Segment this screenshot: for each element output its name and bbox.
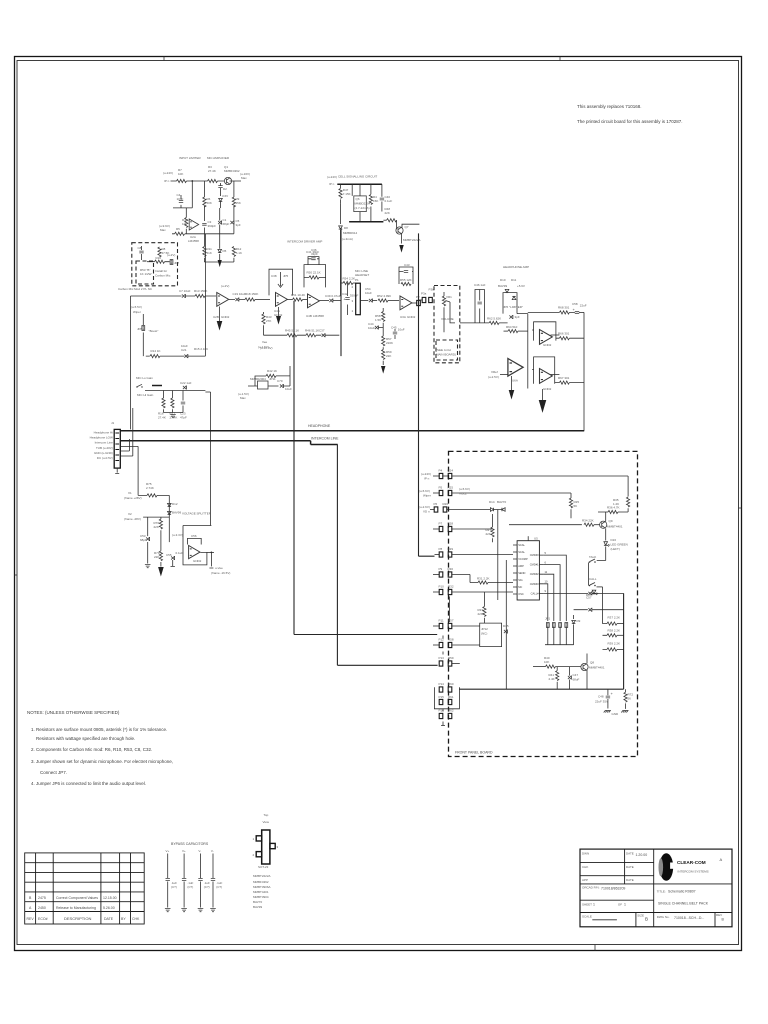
- svg-text:P7: P7: [439, 522, 443, 526]
- svg-text:(frame -16.5V): (frame -16.5V): [211, 571, 230, 575]
- capacitor C39 0.47uF: [329, 299, 333, 303]
- svg-text:C58: C58: [572, 302, 578, 306]
- resistor R9 15K: [232, 197, 235, 207]
- resistor R51 10.4K: [293, 298, 303, 301]
- svg-text:Wiper: Wiper: [423, 494, 431, 498]
- svg-text:U6A: U6A: [512, 379, 518, 383]
- transistor Q9 MMBT4401: [600, 521, 607, 528]
- pot resistor VR1: [443, 292, 445, 332]
- wire top rail: [171, 180, 242, 182]
- resistor R11 51K: [203, 247, 206, 257]
- capacitor C8: [139, 251, 143, 253]
- svg-text:JP6: JP6: [503, 305, 509, 309]
- svg-text:VR1: VR1: [446, 295, 452, 299]
- svg-text:GND2: GND2: [543, 343, 552, 347]
- cap C57 on cmd wire: [543, 592, 623, 594]
- call switch S2: [589, 583, 596, 587]
- resistor R44 to base: [383, 219, 386, 221]
- capacitor C48 22uF 35V: [607, 689, 609, 695]
- svg-text:u-Vee: u-Vee: [215, 566, 223, 570]
- J1 pin contacts: [115, 433, 119, 461]
- svg-text:7.15K: 7.15K: [343, 192, 351, 196]
- resistor R46 51.1K: [306, 334, 316, 337]
- svg-text:P8: P8: [439, 547, 443, 551]
- svg-text:(C?): (C?): [187, 885, 193, 889]
- bypass cap C61: [165, 849, 177, 912]
- resistor R62 5.62K: [489, 321, 499, 324]
- svg-text:27K: 27K: [266, 319, 271, 323]
- svg-text:5K: 5K: [574, 504, 578, 508]
- fp row2 wire: [452, 493, 571, 518]
- svg-text:MMBT3906A: MMBT3906A: [253, 885, 271, 889]
- output stage loop 2: [532, 357, 555, 384]
- svg-text:P5: P5: [439, 486, 443, 490]
- resistor R18 150K: [245, 298, 255, 301]
- svg-text:R68 301: R68 301: [558, 306, 570, 310]
- svg-text:C38: C38: [271, 274, 277, 278]
- svg-text:MMBD2204: MMBD2204: [355, 202, 371, 206]
- svg-text:BY: BY: [121, 917, 126, 921]
- ground U2B: [219, 307, 221, 322]
- svg-text:MMBT2222A: MMBT2222A: [403, 238, 421, 242]
- jumper JP7: [170, 260, 173, 265]
- fp option loop JP12: [480, 623, 502, 647]
- svg-text:Max: Max: [241, 176, 247, 180]
- svg-text:D8: D8: [344, 226, 348, 230]
- svg-text:27.4K: 27.4K: [158, 416, 166, 420]
- svg-text:R54 2.2K: R54 2.2K: [343, 277, 356, 281]
- volume pot dashed box: [434, 286, 460, 363]
- svg-text:15K: 15K: [236, 201, 241, 205]
- fp mid vertical: [505, 560, 507, 689]
- resistor R35 1.2K: [627, 497, 630, 507]
- svg-text:R15 2.10K: R15 2.10K: [194, 347, 208, 351]
- wire mic column left: [130, 296, 132, 429]
- svg-text:INTERCOM DRIVER AMP: INTERCOM DRIVER AMP: [287, 240, 322, 244]
- fp pin pair row12: [439, 699, 443, 704]
- svg-text:2. Components for Carbon Mic m: 2. Components for Carbon Mic mod: R6, R1…: [31, 747, 152, 752]
- wire +28V row: [138, 494, 169, 496]
- driver bottom rail: [264, 334, 340, 336]
- svg-text:MMBT2222A: MMBT2222A: [253, 874, 271, 878]
- svg-text:R25: R25: [448, 486, 454, 490]
- svg-text:47pF: 47pF: [180, 416, 187, 420]
- transistor Q1 MMBT4392: [224, 177, 231, 184]
- wire mic row: [131, 295, 217, 297]
- svg-text:R64 510: R64 510: [506, 325, 518, 329]
- svg-text:(SEE 4-CH: (SEE 4-CH: [436, 348, 451, 352]
- svg-text:Resistors with wattage specifi: Resistors with wattage specified are thr…: [36, 736, 135, 741]
- front panel dashed box: [449, 451, 638, 756]
- svg-text:LM4558: LM4558: [188, 239, 199, 243]
- resistor R40 10K: [533, 666, 546, 668]
- intercom line bus wire: [120, 441, 337, 445]
- wire row9 to JP12: [452, 644, 480, 646]
- resistor R54 2.2K: [341, 282, 343, 284]
- cmd nested wire 2: [543, 574, 553, 621]
- svg-text:MMBT4401: MMBT4401: [253, 890, 269, 894]
- SOT-23 pin 3 tab: [270, 843, 275, 848]
- connector pin P3a: [422, 297, 426, 302]
- net u-Vee frame: [211, 552, 213, 554]
- svg-text:DATE: DATE: [104, 917, 114, 921]
- wire lower join: [204, 258, 234, 262]
- svg-text:SOT-23: SOT-23: [258, 865, 269, 869]
- svg-text:22uF 35V: 22uF 35V: [595, 700, 608, 704]
- wire U4A out: [288, 299, 293, 301]
- svg-text:50K: 50K: [207, 201, 212, 205]
- diode D12 BAV99: [168, 503, 172, 506]
- resistor R67 301: [551, 374, 560, 376]
- wire jp to stack: [574, 609, 624, 611]
- svg-text:R66 301: R66 301: [558, 332, 570, 336]
- svg-text:22uF: 22uF: [580, 304, 587, 308]
- svg-text:10K: 10K: [544, 660, 549, 664]
- svg-text:BAV99: BAV99: [172, 511, 181, 515]
- svg-text:1.20.00: 1.20.00: [636, 853, 648, 857]
- svg-text:(frame -28V): (frame -28V): [124, 517, 141, 521]
- svg-text:R67 301: R67 301: [558, 376, 570, 380]
- svg-text:R38 2.2K: R38 2.2K: [608, 629, 621, 633]
- svg-text:GND (u-GND): GND (u-GND): [94, 451, 113, 455]
- svg-text:REV: REV: [716, 913, 722, 917]
- svg-text:D12: D12: [172, 502, 178, 506]
- capacitor C46 1uF loop: [475, 290, 484, 323]
- svg-text:DATE: DATE: [626, 878, 634, 882]
- diode D13 BAV99: [168, 511, 172, 514]
- svg-text:C47: C47: [573, 673, 579, 677]
- resistor R31 2.2K: [478, 581, 488, 584]
- svg-text:SHEET: SHEET: [582, 903, 592, 907]
- SOT-23 package body: [262, 830, 270, 864]
- capacitor C41 39pF loop: [308, 257, 319, 265]
- diode D8 MMBD914: [340, 203, 342, 296]
- diode centre drop: [497, 514, 499, 601]
- node junction: [191, 180, 193, 182]
- svg-text:C41 39pF: C41 39pF: [306, 250, 319, 254]
- ic U5 right pin names: [530, 553, 539, 595]
- svg-text:V+: V+: [166, 849, 170, 853]
- svg-text:MMBD2004: MMBD2004: [250, 377, 266, 381]
- svg-text:U4B: U4B: [306, 314, 312, 318]
- resistor R39 2.2K: [607, 648, 617, 651]
- resistor R47 7.15K: [340, 184, 342, 203]
- svg-text:SCALE: SCALE: [582, 915, 592, 919]
- fp pin pair row6: [433, 574, 439, 576]
- resistor R42 1K: [266, 374, 276, 377]
- svg-text:MMBT4401: MMBT4401: [589, 666, 605, 670]
- wire top rail cell: [337, 183, 382, 185]
- zone tick left: [15, 574, 18, 576]
- svg-text:J1: J1: [111, 421, 115, 425]
- splitter output loop: [183, 526, 207, 565]
- wire mid column: [203, 181, 205, 234]
- svg-text:P13: P13: [439, 656, 445, 660]
- fp pin pair row10 intercom: [439, 661, 443, 666]
- svg-text:10uF: 10uF: [285, 387, 292, 391]
- svg-text:C8: C8: [138, 246, 142, 250]
- svg-text:R59: R59: [448, 656, 454, 660]
- capacitor C45 10uF: [393, 332, 397, 334]
- svg-text:VRef: VRef: [491, 370, 498, 374]
- svg-text:1.5K: 1.5K: [375, 318, 381, 322]
- diode D5: [218, 249, 222, 252]
- svg-text:(C?): (C?): [204, 885, 210, 889]
- limiter rectifier block MMBD2004 JP11: [258, 381, 269, 389]
- svg-text:DATE: DATE: [626, 865, 634, 869]
- svg-text:(u-24V): (u-24V): [327, 175, 337, 179]
- resistor R50 22.1K: [309, 276, 319, 279]
- svg-text:68pF: 68pF: [223, 222, 230, 226]
- svg-text:GND2: GND2: [543, 387, 552, 391]
- svg-text:C55: C55: [166, 553, 172, 557]
- ic U5 right pin numbers: [545, 551, 548, 593]
- svg-text:(u-24V): (u-24V): [163, 171, 173, 175]
- svg-text:V+: V+: [182, 849, 186, 853]
- svg-text:GND2: GND2: [407, 315, 416, 319]
- svg-text:220K: 220K: [386, 341, 393, 345]
- resistor R45 51.1K: [287, 334, 297, 337]
- svg-text:P9: P9: [439, 567, 443, 571]
- resistor R72 56: [625, 689, 627, 692]
- carbon mic inner dashed box: [136, 261, 154, 284]
- ground cell transistor: [401, 234, 403, 244]
- svg-text:P15: P15: [439, 695, 445, 699]
- svg-text:U3A: U3A: [400, 315, 406, 319]
- svg-text:22K: 22K: [385, 211, 390, 215]
- svg-text:SIG: SIG: [518, 578, 522, 582]
- capacitor C19 10uF: [235, 298, 239, 302]
- svg-text:C48: C48: [598, 695, 604, 699]
- svg-text:5.26.00: 5.26.00: [103, 906, 115, 910]
- transistor Q8 MMBT4401: [581, 663, 588, 670]
- svg-text:X1: X1: [128, 491, 132, 495]
- jumper JP2: [552, 623, 555, 628]
- output stage loop 1: [532, 322, 556, 341]
- cmd nested wire 0: [543, 555, 566, 621]
- svg-text:C7 10uF: C7 10uF: [179, 289, 191, 293]
- resistor R48b 27K: [263, 312, 265, 335]
- svg-text:VD n: VD n: [423, 510, 430, 514]
- svg-text:C22 1uF: C22 1uF: [180, 381, 192, 385]
- op-amp U4B: [308, 294, 320, 308]
- svg-text:APP: APP: [582, 878, 588, 882]
- resistor R52 4.99K: [378, 299, 388, 302]
- jumper JP8 boost: [142, 314, 144, 325]
- fp bottom loop: [434, 687, 459, 709]
- svg-text:R32: R32: [448, 585, 454, 589]
- capacitor C53: [147, 517, 149, 563]
- wire headphone mid bus: [517, 314, 528, 389]
- diode D15: [504, 630, 508, 634]
- svg-text:P14: P14: [439, 682, 445, 686]
- capacitor C47 68uF: [569, 667, 571, 676]
- svg-text:10uF: 10uF: [365, 291, 372, 295]
- wire U4B out: [320, 300, 330, 302]
- J1 riser wires: [120, 408, 138, 495]
- svg-text:5.1K: 5.1K: [236, 251, 242, 255]
- zener diode D2: [219, 198, 223, 201]
- svg-text:27.4K: 27.4K: [208, 169, 216, 173]
- ground U6A: [511, 376, 513, 390]
- svg-text:P11: P11: [439, 619, 444, 623]
- svg-text:CMD#1: CMD#1: [530, 563, 539, 567]
- resistor R7 10K: [177, 179, 187, 182]
- svg-text:TALK: TALK: [589, 555, 596, 559]
- svg-text:C43: C43: [404, 263, 410, 267]
- svg-text:C37: C37: [319, 329, 325, 333]
- jumper link column: [448, 597, 450, 623]
- current source Q6 MMBD2204 box: [354, 196, 367, 212]
- svg-text:10uF: 10uF: [177, 197, 184, 201]
- svg-text:D10: D10: [500, 278, 506, 282]
- svg-text:Q7: Q7: [405, 225, 409, 229]
- jumper JP1: [546, 623, 549, 628]
- svg-text:Vee: Vee: [262, 340, 268, 344]
- capacitor C42 350uF: [347, 283, 349, 315]
- resistor R79 22K: [160, 530, 162, 551]
- wire junction drop: [173, 181, 192, 208]
- resistor R5: [175, 232, 185, 235]
- svg-text:B: B: [645, 917, 648, 922]
- op-amp U6B: [540, 330, 553, 345]
- ground driver lower: [382, 361, 384, 365]
- svg-text:MAIN BOARD): MAIN BOARD): [436, 353, 456, 357]
- svg-text:SCAL: SCAL: [518, 550, 525, 554]
- capacitor C70 10uF: [280, 384, 284, 388]
- resistor R10: [155, 260, 165, 263]
- svg-text:VOLTAGE SPLITTER: VOLTAGE SPLITTER: [182, 512, 212, 516]
- svg-text:(u-12.4V): (u-12.4V): [260, 346, 273, 350]
- svg-text:10K: 10K: [178, 172, 183, 176]
- svg-text:View: View: [263, 820, 270, 824]
- svg-text:22K: 22K: [478, 612, 483, 616]
- svg-text:R14 1K: R14 1K: [151, 349, 161, 353]
- svg-text:R36 4.7K: R36 4.7K: [607, 506, 620, 510]
- wire volume row: [460, 322, 508, 324]
- svg-text:350uF: 350uF: [350, 294, 359, 298]
- wire hi gain row: [145, 390, 205, 392]
- svg-text:(4.7-22mA): (4.7-22mA): [355, 206, 370, 210]
- Q9 collector riser: [605, 512, 607, 522]
- svg-text:CMD#3: CMD#3: [530, 582, 539, 586]
- svg-text:JP1: JP1: [545, 617, 551, 621]
- svg-text:1. Resistors are surface mount: 1. Resistors are surface mount 0805, ast…: [31, 727, 167, 732]
- svg-text:C39 0.47uF: C39 0.47uF: [325, 294, 341, 298]
- svg-text:HEADSET: HEADSET: [355, 273, 369, 277]
- wire collector to bus: [402, 224, 419, 227]
- wire bus to P3: [419, 299, 423, 301]
- svg-text:MIC Lo Gain: MIC Lo Gain: [136, 376, 153, 380]
- svg-text:C46 1uF: C46 1uF: [474, 283, 486, 287]
- svg-text:ORCAD P/N:: ORCAD P/N:: [582, 886, 600, 890]
- wire P1 to C54: [360, 300, 368, 302]
- op-amp U2A: [189, 219, 199, 230]
- fp row5 wire: [452, 554, 513, 556]
- connector pin P3b: [429, 297, 433, 302]
- op-amp U3A: [400, 296, 412, 310]
- svg-text:R37 2.2K: R37 2.2K: [608, 616, 621, 620]
- pot note dashed box: [436, 340, 458, 360]
- svg-text:DC (u-0.5V): DC (u-0.5V): [97, 456, 113, 460]
- ground U4A: [278, 307, 280, 316]
- intercom line vertical drop: [336, 445, 338, 666]
- svg-text:R51 10.4K: R51 10.4K: [291, 293, 305, 297]
- svg-text:51K: 51K: [207, 251, 212, 255]
- capacitor C4 10uF polarized: [180, 195, 182, 208]
- svg-text:R5: R5: [176, 227, 180, 231]
- resistor R12 5.1K: [232, 247, 235, 257]
- SOT-23 pin 2 tab: [256, 852, 262, 857]
- svg-text:BAV70: BAV70: [253, 900, 262, 904]
- svg-text:68uF: 68uF: [573, 678, 580, 682]
- cmd nested wire 3: [543, 584, 547, 621]
- svg-text:R31 2.2K: R31 2.2K: [477, 577, 490, 581]
- resistor R59: [382, 347, 384, 349]
- svg-text:IP n: IP n: [164, 179, 170, 183]
- fp bottom rail: [459, 688, 623, 690]
- jumper JP5 arrow: [280, 272, 282, 286]
- clear-com logo mark: [659, 853, 676, 881]
- svg-text:D14: D14: [489, 500, 495, 504]
- wire bottom rail: [172, 233, 234, 235]
- fp row4 wire: [452, 528, 493, 530]
- svg-text:R28: R28: [448, 522, 454, 526]
- svg-text:(u-2V): (u-2V): [167, 253, 175, 257]
- intercom line bottom run: [337, 664, 437, 666]
- resistor R4 1M: [185, 218, 188, 228]
- resistor R17 27.4K: [171, 398, 174, 408]
- fp pin pair row5: [435, 554, 440, 556]
- svg-text:R62: R62: [448, 709, 454, 713]
- svg-text:BAV99: BAV99: [498, 284, 507, 288]
- svg-text:P6: P6: [434, 502, 438, 506]
- svg-text:REV: REV: [27, 917, 35, 921]
- resistor R48: [370, 184, 372, 222]
- signal bus vertical mid-left: [293, 301, 295, 635]
- svg-text:NOTES: (UNLESS OTHERWISE SPECI: NOTES: (UNLESS OTHERWISE SPECIFIED): [27, 710, 120, 715]
- svg-text:MIC Hi Gain: MIC Hi Gain: [137, 393, 154, 397]
- svg-text:CHK: CHK: [132, 917, 140, 921]
- svg-text:R29: R29: [448, 547, 454, 551]
- ground gain network: [170, 415, 176, 418]
- resistor R57 220K: [382, 336, 385, 346]
- zone tick right: [739, 507, 742, 509]
- wire gain network bottom: [164, 412, 184, 414]
- svg-text:DATE: DATE: [626, 852, 634, 856]
- svg-text:LM4558: LM4558: [313, 314, 324, 318]
- ground R72: [621, 711, 628, 713]
- svg-text:(u-24V): (u-24V): [421, 472, 431, 476]
- svg-text:D2: D2: [223, 187, 227, 191]
- capacitor C58 22uF: [575, 312, 579, 314]
- svg-text:TUB (u-20V): TUB (u-20V): [96, 446, 113, 450]
- pot wiper arrow: [446, 301, 456, 323]
- svg-text:1: 1: [593, 903, 595, 907]
- revision table grid: [25, 853, 145, 924]
- capacitor C22 1uF: [183, 386, 187, 390]
- ic U5 left pin names: [518, 543, 528, 596]
- svg-text:GND2: GND2: [193, 559, 202, 563]
- headphone bus wire: [120, 430, 584, 432]
- svg-text:Carbon Mic: Carbon Mic: [155, 274, 171, 278]
- vertical bus mid sheet: [340, 228, 342, 356]
- svg-text:The printed circuit board for: The printed circuit board for this assem…: [577, 119, 683, 124]
- ic U5 body: [517, 541, 539, 600]
- resistor R41 2.4K: [556, 667, 558, 671]
- wire U3A out to P2: [412, 302, 417, 304]
- resistor R37 2.2K: [607, 622, 617, 625]
